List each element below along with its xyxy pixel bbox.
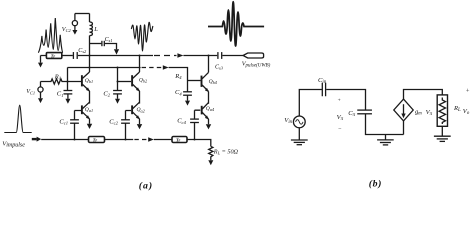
- box delay line 1: [89, 137, 105, 143]
- capacitor Cpi: [357, 110, 372, 114]
- svg-text:+: +: [465, 87, 469, 94]
- svg-text:Cπ: Cπ: [348, 110, 355, 118]
- wire Cpi to bottom rail: [366, 114, 404, 135]
- wire main output line: [78, 55, 153, 57]
- ground under Vc1: [38, 98, 43, 103]
- wire Qb4 emitter to Qa4 collector: [208, 92, 210, 104]
- ground under C4: [185, 101, 190, 106]
- capacitor Cs3: [218, 52, 222, 59]
- ground under RL circuit b: [434, 136, 451, 141]
- connector output probe: [243, 53, 264, 58]
- ground under Vin: [291, 128, 308, 145]
- ground under C1: [65, 99, 70, 104]
- wire stage2 bias vertical: [117, 68, 119, 91]
- svg-text:R4: R4: [174, 73, 182, 80]
- wire C2 to ground: [117, 94, 119, 99]
- wire Cin to Cpi: [326, 90, 365, 110]
- wire RL to ground: [441, 126, 443, 136]
- wire Qa4 emitter down: [208, 119, 210, 124]
- wire top rail Vc2 to L: [75, 13, 90, 15]
- svg-text:Tr: Tr: [93, 137, 98, 142]
- resistor RL box: [437, 95, 447, 126]
- svg-text:Cs2: Cs2: [78, 48, 87, 54]
- wire trigger bus dashed: [134, 139, 147, 141]
- capacitor C4: [183, 92, 192, 95]
- wire trigger bus mid: [105, 139, 134, 141]
- svg-text:Cc4: Cc4: [177, 118, 186, 125]
- waveform impulse: [4, 105, 31, 132]
- wire Cs1 stub: [90, 43, 102, 45]
- ground mid circuit b: [377, 135, 394, 145]
- svg-text:Qb2: Qb2: [139, 77, 147, 83]
- inductor L: [90, 14, 93, 36]
- bias line dashed section: [142, 67, 163, 69]
- resistor RL load: [209, 146, 213, 160]
- ground under RL: [208, 160, 213, 165]
- transistor Qb4: [202, 72, 209, 92]
- ground under Tr box: [38, 63, 43, 68]
- wire Vin to Cin: [299, 90, 322, 117]
- wire trigger bus left: [41, 139, 88, 141]
- wire C1 to ground: [67, 94, 69, 99]
- wire Tr to Cs2: [62, 55, 73, 57]
- transistor Qb2: [132, 72, 140, 92]
- svg-text:Cs1: Cs1: [105, 37, 113, 43]
- wire bias line to stage4 corner: [169, 68, 188, 92]
- svg-text:Vπ: Vπ: [337, 114, 344, 122]
- capacitor C2: [113, 91, 122, 94]
- svg-text:VC2: VC2: [62, 26, 72, 33]
- capacitor Cc4 to Qa4 base: [190, 110, 200, 139]
- capacitor Cs1: [102, 41, 104, 46]
- wire Qa2 emitter down: [139, 119, 141, 124]
- wire Qb1 emitter to Qa1 collector: [89, 91, 91, 104]
- transistor Qa4: [202, 103, 209, 120]
- capacitor Cc1 to Qa1 base: [70, 111, 81, 140]
- arrow on trigger bus: [148, 137, 154, 141]
- wire Cs3 to output: [222, 55, 243, 57]
- svg-text:Qa4: Qa4: [206, 106, 214, 112]
- ground under Qa2: [137, 124, 142, 129]
- wire stage2 base: [118, 81, 132, 83]
- wire main line left end: [41, 56, 47, 63]
- source Vc1: [38, 82, 43, 99]
- svg-text:Qa1: Qa1: [85, 107, 93, 113]
- waveform mid burst: [131, 22, 153, 51]
- wire trigger bus to box2: [154, 139, 172, 141]
- svg-text:C1: C1: [57, 91, 64, 98]
- svg-text:Qb1: Qb1: [85, 78, 93, 84]
- svg-text:Tr: Tr: [176, 137, 181, 142]
- wire Cs1 to ground arrow: [105, 44, 117, 50]
- svg-text:Cc1: Cc1: [59, 119, 68, 126]
- svg-text:VC1: VC1: [26, 88, 35, 95]
- svg-text:C4: C4: [175, 89, 182, 96]
- svg-text:C2: C2: [103, 90, 110, 97]
- svg-text:Qb4: Qb4: [209, 79, 217, 85]
- transistor Qb1: [82, 72, 90, 92]
- resistor R1: [41, 79, 82, 84]
- svg-text:RL = 50Ω: RL = 50Ω: [213, 148, 239, 155]
- capacitor Cc2 to Qa2 base: [121, 111, 131, 140]
- capacitor Cin: [322, 83, 325, 97]
- svg-text:Vπ: Vπ: [426, 109, 433, 117]
- arrow on main line: [177, 53, 183, 57]
- junction dots: [67, 55, 210, 141]
- transistor Qa2: [132, 102, 140, 119]
- wire Qb4 collector to main line: [208, 56, 210, 73]
- wire stage1 bias vertical: [67, 68, 69, 91]
- ground under Vc2: [72, 30, 77, 35]
- ground under Qa4: [206, 124, 211, 129]
- arrow on bias line: [163, 65, 169, 69]
- wire main line right section: [183, 55, 217, 57]
- capacitor Cs2: [73, 52, 77, 59]
- svg-text:RL: RL: [453, 105, 461, 113]
- svg-text:+: +: [337, 98, 341, 104]
- svg-text:Vin: Vin: [284, 117, 292, 125]
- wire current source to RL: [404, 90, 443, 100]
- ground arrow Cs1: [114, 49, 119, 54]
- svg-text:(a): (a): [139, 181, 153, 191]
- svg-text:Vo: Vo: [463, 108, 470, 116]
- wire L to Qb1 collector: [89, 36, 91, 72]
- source Vc2: [72, 14, 77, 31]
- svg-text:Qa2: Qa2: [137, 107, 145, 113]
- svg-text:(b): (b): [369, 178, 382, 189]
- svg-text:Cin: Cin: [318, 77, 327, 85]
- source Vin: [293, 116, 305, 128]
- svg-text:L: L: [93, 26, 98, 33]
- wire main line dashed section: [154, 55, 177, 57]
- box delay line 2: [172, 137, 187, 143]
- transistor Qa1: [82, 102, 90, 119]
- current source gmVpi: [394, 99, 413, 121]
- wire bottom rail to current source: [403, 121, 405, 135]
- svg-text:Vimpulse: Vimpulse: [2, 140, 25, 148]
- capacitor C1: [64, 91, 73, 94]
- svg-text:R1: R1: [54, 73, 61, 80]
- wire Qb2 emitter to Qa2 collector: [139, 91, 141, 104]
- waveform output UWB pulse: [208, 2, 264, 46]
- ground under C2: [115, 99, 120, 104]
- waveform input burst: [38, 18, 63, 53]
- wire Qb2 collector to main line: [139, 56, 141, 73]
- wire trigger bus right: [187, 140, 211, 147]
- svg-text:gm: gm: [415, 109, 422, 117]
- svg-text:Cs3: Cs3: [215, 64, 224, 70]
- svg-text:Tr: Tr: [51, 53, 56, 58]
- wire stage4 base: [188, 80, 201, 82]
- bias line: [68, 67, 141, 69]
- wire Qa1 emitter down: [89, 119, 91, 124]
- arrow trigger input: [32, 137, 41, 142]
- ground under Qa1: [87, 124, 92, 129]
- box Tr trigger line: [46, 53, 61, 59]
- svg-text:Cc2: Cc2: [109, 118, 118, 125]
- svg-text:−: −: [338, 127, 342, 133]
- svg-text:Vpulse(UWB): Vpulse(UWB): [242, 60, 271, 68]
- wire C4 to ground: [187, 95, 189, 100]
